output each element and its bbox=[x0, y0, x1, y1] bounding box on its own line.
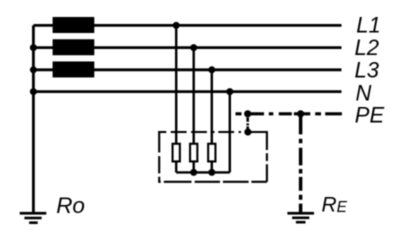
wire: tap from N down to star-point bus bbox=[229, 92, 231, 173]
wire: earth electrode conductor to RE (dash-dot vertical) bbox=[299, 114, 303, 212]
node: left bus / L2 junction bbox=[30, 44, 37, 51]
fuse F3 on L3 bbox=[53, 61, 95, 77]
wire: tap from L2 down to resistor R2 bbox=[192, 48, 194, 144]
wire: stub R2 bottom to star-point bus bbox=[192, 162, 194, 172]
svg-text:PE: PE bbox=[355, 102, 385, 127]
enclosure: dashed equipment box, bottom edge bbox=[158, 181, 267, 183]
node: L2 tap junction bbox=[190, 44, 197, 51]
node: PE / enclosure-bond junction bbox=[244, 110, 251, 117]
node: bond on enclosure top edge bbox=[244, 128, 251, 135]
node: PE / earth-electrode junction bbox=[297, 110, 304, 117]
ground: earth electrode symbol (RE), bar 2 bbox=[292, 217, 309, 220]
node: R3 / bus junction bbox=[208, 169, 215, 176]
wire: tap from L1 down to resistor R1 bbox=[175, 25, 177, 143]
ground: operating earth symbol (Ro), bar 2 bbox=[24, 217, 41, 220]
svg-text:L3: L3 bbox=[355, 58, 380, 83]
resistor R3 (load element) bbox=[208, 144, 215, 162]
fuse F1 on L1 bbox=[53, 17, 95, 33]
wire: tap from L3 down to resistor R3 bbox=[211, 70, 213, 144]
ground: operating earth symbol (Ro), bar 1 bbox=[20, 212, 47, 215]
node: L1 tap junction bbox=[173, 22, 180, 29]
wire: solid segment of box top edge from PE bond to corner bbox=[248, 131, 267, 133]
wire: neutral line N bbox=[33, 90, 341, 93]
wire: left vertical bus from L1 down to earth Ro bbox=[32, 25, 35, 212]
ground: earth electrode symbol (RE), bar 1 bbox=[287, 212, 314, 215]
svg-text:RE: RE bbox=[322, 193, 348, 216]
svg-text:Ro: Ro bbox=[56, 193, 85, 218]
fuse F2 on L2 bbox=[53, 39, 95, 55]
wire: stub R1 bottom to star-point bus bbox=[175, 162, 177, 172]
ground: operating earth symbol (Ro), bar 3 bbox=[29, 221, 38, 224]
wire: phase line L3 bbox=[33, 68, 341, 71]
enclosure: dashed equipment box, right edge bbox=[266, 131, 268, 182]
node: L3 tap junction bbox=[208, 66, 215, 73]
wire: stub R3 bottom to star-point bus bbox=[211, 162, 213, 172]
resistor R2 (load element) bbox=[190, 144, 197, 162]
wire: phase line L2 bbox=[33, 46, 341, 49]
node: R2 / bus junction bbox=[190, 169, 197, 176]
wire: phase line L1 bbox=[33, 24, 341, 27]
svg-text:L2: L2 bbox=[355, 35, 379, 60]
wire: PE bond drop to enclosure (dash-dot) bbox=[246, 118, 249, 133]
wire: star-point bus joining resistor bottoms to N tap bbox=[176, 171, 230, 173]
svg-text:L1: L1 bbox=[356, 12, 380, 37]
resistor R1 (load element) bbox=[173, 144, 180, 162]
node: N tap junction bbox=[226, 88, 233, 95]
enclosure: dashed equipment box, left edge bbox=[158, 131, 160, 182]
node: left bus / L3 junction bbox=[30, 66, 37, 73]
node: left bus / N junction bbox=[30, 88, 37, 95]
enclosure: dashed equipment box, top edge bbox=[158, 131, 241, 133]
wire: PE conductor (dash-dot line) bbox=[236, 112, 342, 115]
ground: earth electrode symbol (RE), bar 3 bbox=[296, 221, 306, 224]
